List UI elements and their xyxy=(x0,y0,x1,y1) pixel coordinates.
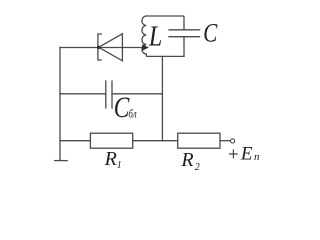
svg-text:+: + xyxy=(227,145,240,166)
svg-text:C: C xyxy=(203,20,217,49)
svg-text:бл: бл xyxy=(128,109,137,121)
svg-text:C: C xyxy=(114,91,130,124)
svg-text:R: R xyxy=(180,149,193,171)
svg-text:E: E xyxy=(240,143,253,164)
svg-text:L: L xyxy=(148,21,162,52)
svg-text:2: 2 xyxy=(195,162,200,173)
svg-text:п: п xyxy=(254,151,260,163)
svg-text:1: 1 xyxy=(117,160,122,171)
svg-text:R: R xyxy=(104,148,117,170)
